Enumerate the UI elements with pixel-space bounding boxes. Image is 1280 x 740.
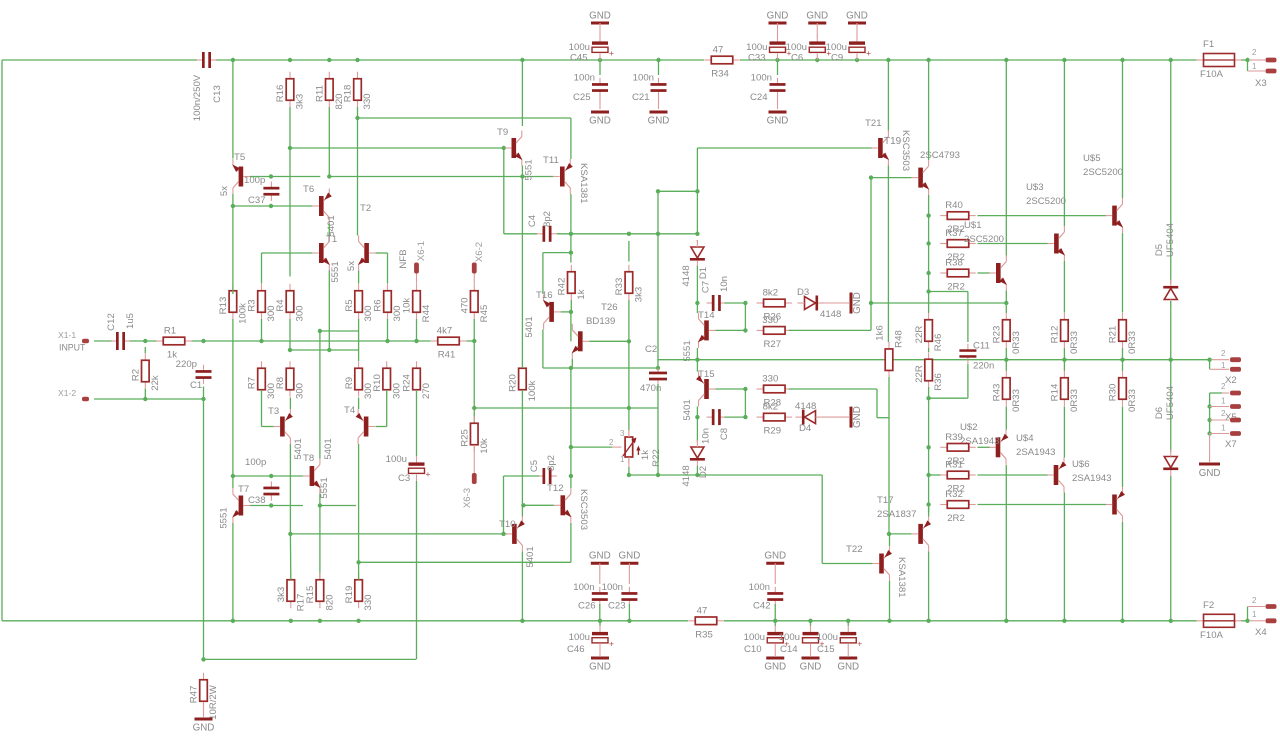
resistor R30 <box>1122 371 1124 378</box>
svg-text:220n: 220n <box>973 361 994 372</box>
capacitor C26 stack <box>591 562 609 565</box>
wire T10 emitter up <box>521 505 523 516</box>
node T1-emitter/y350 <box>327 348 331 352</box>
svg-text:1: 1 <box>1221 397 1226 406</box>
resistor R3 <box>261 284 263 291</box>
svg-text:X4: X4 <box>1255 627 1267 638</box>
svg-text:100n/250V: 100n/250V <box>192 74 203 121</box>
node C5/T10 base <box>501 532 505 536</box>
wire R5 bottom <box>358 319 360 331</box>
wire T3 collector <box>289 444 291 534</box>
svg-text:T21: T21 <box>865 118 882 129</box>
svg-text:U$5: U$5 <box>1083 153 1101 164</box>
wire T8 collector column <box>319 331 321 459</box>
wire U$4 collector <box>1063 493 1065 621</box>
svg-text:R32: R32 <box>945 489 963 500</box>
node rail C14 <box>808 619 812 623</box>
capacitor C11 220n <box>967 344 969 351</box>
diode D2 4148 <box>691 447 704 458</box>
connector X4 <box>1250 620 1265 622</box>
node R2 bottom <box>143 397 147 401</box>
svg-text:1k: 1k <box>640 450 651 460</box>
svg-text:10k: 10k <box>479 438 490 454</box>
svg-text:8k2: 8k2 <box>763 288 778 299</box>
svg-text:C10: C10 <box>744 644 762 655</box>
wire R4 bottom <box>289 319 291 350</box>
wire D6 bottom <box>1170 476 1172 621</box>
wire cascode line y118 <box>358 117 571 119</box>
wire R48 bottom <box>888 377 890 533</box>
node D1/C7/T14col <box>695 301 699 305</box>
svg-text:T11: T11 <box>543 155 559 166</box>
svg-text:R47: R47 <box>189 686 200 704</box>
svg-text:2SC4793: 2SC4793 <box>920 150 960 161</box>
svg-text:T15: T15 <box>698 369 715 380</box>
svg-text:GND: GND <box>648 116 670 127</box>
svg-text:2SC5200: 2SC5200 <box>1026 196 1066 207</box>
resistor R20 <box>521 361 523 368</box>
resistor R46 <box>928 313 930 320</box>
node C7/R26 <box>743 301 747 305</box>
svg-text:10n: 10n <box>701 428 712 444</box>
wire C38 top line <box>233 475 303 477</box>
svg-text:R14: R14 <box>1050 383 1061 401</box>
svg-text:GND: GND <box>846 11 868 22</box>
wire D2 bottom <box>696 466 698 475</box>
svg-text:2SC5200: 2SC5200 <box>964 234 1004 245</box>
wire T16 emitter path <box>543 252 571 254</box>
svg-text:2: 2 <box>1221 382 1226 391</box>
svg-text:300: 300 <box>295 305 306 321</box>
wire T4 emitter <box>358 398 360 410</box>
svg-text:+: + <box>426 469 431 479</box>
wire D5 bottom <box>1170 301 1172 360</box>
wire R28 right <box>789 388 877 390</box>
transistor T1 <box>319 243 324 263</box>
fuse F1 F10A <box>1197 59 1204 61</box>
wire R38 right to U$1 base <box>978 272 990 274</box>
resistor R41 <box>431 340 438 342</box>
transistor T16 <box>549 302 554 322</box>
svg-text:+: + <box>609 48 614 58</box>
svg-text:C7: C7 <box>701 281 712 293</box>
wire R37 right to U$3 base <box>978 243 1048 245</box>
svg-text:C1: C1 <box>190 380 202 391</box>
svg-text:330: 330 <box>762 374 778 385</box>
svg-text:F10A: F10A <box>1200 69 1224 80</box>
svg-text:D1: D1 <box>698 267 709 279</box>
svg-text:C42: C42 <box>753 601 771 612</box>
capacitor C7 10n <box>707 302 714 304</box>
ground D3 (rotated) <box>822 302 849 304</box>
pin X6-2 <box>472 263 477 274</box>
wire T5 collector down <box>232 194 234 206</box>
node C38 bottom <box>269 503 273 507</box>
svg-text:F2: F2 <box>1203 600 1214 611</box>
svg-text:1: 1 <box>1221 361 1226 370</box>
node R4/R8/y350 <box>288 348 292 352</box>
svg-text:1k6: 1k6 <box>875 325 886 340</box>
svg-text:X7: X7 <box>1225 439 1237 450</box>
transistor T15 <box>704 379 709 399</box>
svg-text:R12: R12 <box>1050 326 1061 344</box>
svg-text:C8: C8 <box>719 428 730 440</box>
svg-text:GND: GND <box>619 551 641 562</box>
svg-text:C5: C5 <box>529 460 540 472</box>
wire U$5 emitter <box>1122 233 1124 312</box>
svg-text:X6-1: X6-1 <box>416 241 427 261</box>
wire x571 column to C5 <box>570 368 572 476</box>
wire driver line y303 <box>871 302 1006 304</box>
svg-text:10R/2W: 10R/2W <box>208 684 219 720</box>
svg-text:UF5404: UF5404 <box>1165 222 1176 257</box>
svg-text:C2: C2 <box>645 344 657 355</box>
wire R27 right <box>789 329 871 331</box>
wire pot line y408 <box>474 407 658 409</box>
svg-text:T5: T5 <box>234 152 245 163</box>
svg-text:GND: GND <box>800 662 822 673</box>
node rail C42/C10 <box>773 619 777 623</box>
wire T19 base line <box>871 177 912 179</box>
ground C46 <box>599 651 601 657</box>
svg-text:R6: R6 <box>373 299 384 311</box>
wire U$2 emitter <box>1005 407 1007 430</box>
svg-text:5x: 5x <box>346 261 357 271</box>
transistor U$4 2SA1943 <box>1054 465 1059 485</box>
transistor T11 <box>560 167 565 187</box>
svg-text:GND: GND <box>1199 468 1221 479</box>
resistor R2 <box>144 353 146 360</box>
resistor R26 <box>757 302 764 304</box>
node R36 bottom <box>926 396 930 400</box>
wire R23 bottom <box>1005 348 1007 360</box>
node T26 emitter <box>569 366 573 370</box>
svg-text:GND: GND <box>589 551 611 562</box>
bottom supply rail (-V) wire <box>2 620 688 622</box>
svg-text:R7: R7 <box>247 377 258 389</box>
svg-text:D2: D2 <box>698 466 709 478</box>
svg-text:3k3: 3k3 <box>295 94 306 109</box>
capacitor C14 100u <box>810 621 812 626</box>
svg-text:T14: T14 <box>698 310 715 321</box>
transistor T2 <box>364 243 369 263</box>
node D1 anode <box>695 232 699 236</box>
wire T3 emitter <box>289 398 291 410</box>
svg-text:R8: R8 <box>275 377 286 389</box>
svg-text:1: 1 <box>620 455 625 464</box>
svg-text:C24: C24 <box>750 92 768 103</box>
wire U$3 emitter <box>1063 261 1065 313</box>
svg-text:10k: 10k <box>402 298 413 314</box>
node rail C23 <box>627 619 631 623</box>
node pot-line/R25 <box>472 406 476 410</box>
wire T17 collector <box>928 552 930 621</box>
transistor U$5 2SC5200 <box>1112 206 1117 226</box>
resistor R12 <box>1063 313 1065 320</box>
diode D6 UF5404 <box>1170 360 1172 452</box>
node R6/input <box>385 339 389 343</box>
svg-text:5551: 5551 <box>524 159 535 180</box>
wire T14 base <box>716 329 746 331</box>
svg-text:10n: 10n <box>719 276 730 292</box>
resistor R39 <box>940 446 947 448</box>
wire T11 emitter up <box>570 118 572 159</box>
transistor T26 <box>578 331 583 351</box>
resistor R27 <box>757 329 764 331</box>
svg-text:T10: T10 <box>499 519 516 530</box>
resistor R38 <box>940 272 947 274</box>
svg-text:T26: T26 <box>601 302 618 313</box>
pin X6-1 NFB <box>414 263 419 274</box>
svg-text:5551: 5551 <box>219 507 230 528</box>
node R18/T2-collector/T11-emitter <box>355 116 359 120</box>
svg-text:GND: GND <box>852 292 863 314</box>
svg-text:R39: R39 <box>945 432 963 443</box>
node C38 top <box>269 474 273 478</box>
svg-text:GND: GND <box>767 11 789 22</box>
wire C11 bottom path <box>967 364 969 399</box>
capacitor C23 stack <box>620 562 638 565</box>
wire T2 base jog <box>376 252 388 254</box>
node R23 rail <box>1004 358 1008 362</box>
svg-text:1: 1 <box>1221 424 1226 433</box>
svg-text:D6: D6 <box>1154 407 1165 419</box>
svg-text:R9: R9 <box>344 377 355 389</box>
capacitor C6 100u stack <box>808 22 826 25</box>
svg-text:100u: 100u <box>569 632 590 643</box>
resistor R25 <box>473 416 475 423</box>
svg-text:C15: C15 <box>817 644 835 655</box>
svg-text:U$3: U$3 <box>1026 182 1044 193</box>
node rail C26 <box>598 619 602 623</box>
wire R19 top <box>358 562 360 580</box>
capacitor C38 100p <box>270 481 272 488</box>
resistor R29 <box>757 416 764 418</box>
svg-text:0R33: 0R33 <box>1011 389 1022 412</box>
svg-text:4k7: 4k7 <box>437 326 452 337</box>
pin X6-3 <box>473 445 475 473</box>
wire R13 bottom column <box>232 319 234 476</box>
svg-text:R13: R13 <box>218 297 229 315</box>
svg-text:4148: 4148 <box>795 401 816 412</box>
svg-text:R44: R44 <box>421 304 432 322</box>
svg-text:0R33: 0R33 <box>1127 389 1138 412</box>
node driver line y303 <box>869 301 873 305</box>
wire T17 base <box>889 533 912 535</box>
wire R28 jog down <box>876 389 878 418</box>
wire T2 collector column <box>357 118 359 236</box>
capacitor C37 100p <box>270 182 272 189</box>
wire R7 bottom to T3 base <box>261 390 263 427</box>
node R11/T6-emitter <box>327 174 331 178</box>
transistor T6 <box>319 196 324 216</box>
svg-text:C45: C45 <box>570 53 588 64</box>
node R20/T9-emitter/y176 <box>520 174 524 178</box>
node R16/T9 base line <box>288 146 292 150</box>
resistor R47 <box>203 673 205 680</box>
svg-text:R10: R10 <box>372 374 383 392</box>
svg-text:1u5: 1u5 <box>125 313 136 329</box>
resistor R45 <box>473 284 475 291</box>
ground C25 <box>599 95 601 110</box>
wire R39 right <box>978 446 990 448</box>
svg-text:T8: T8 <box>303 453 314 464</box>
svg-text:R41: R41 <box>438 350 456 361</box>
svg-text:100n: 100n <box>602 582 623 593</box>
svg-text:GND: GND <box>764 662 786 673</box>
resistor R9 <box>358 361 360 368</box>
wire 358 link <box>358 331 360 350</box>
wire U$6 collector <box>1122 522 1124 621</box>
wire U$1 emitter <box>1005 291 1007 304</box>
svg-text:X1-2: X1-2 <box>58 388 76 398</box>
svg-text:T2: T2 <box>360 203 371 214</box>
svg-text:C21: C21 <box>632 92 650 103</box>
node R31 line <box>926 473 930 477</box>
svg-text:+: + <box>857 639 862 649</box>
resistor R11 <box>328 72 330 79</box>
node rail C15 <box>846 619 850 623</box>
capacitor C8 10n <box>707 416 714 418</box>
svg-text:T9: T9 <box>497 127 508 138</box>
svg-text:BD139: BD139 <box>586 316 615 327</box>
resistor R16 <box>289 72 291 79</box>
svg-text:2: 2 <box>1252 48 1257 57</box>
transistor T9 <box>512 138 517 158</box>
resistor R33 <box>628 265 630 272</box>
wire U$2 collector <box>1005 465 1007 621</box>
svg-text:100u: 100u <box>826 42 847 53</box>
resistor R37 <box>940 243 947 245</box>
wire T10 collector down <box>521 552 523 621</box>
node R42 top/T16em line <box>569 250 573 254</box>
wire T12 emitter down <box>570 523 572 562</box>
capacitor C3 100u <box>416 456 418 462</box>
svg-text:D5: D5 <box>1154 244 1165 256</box>
resistor R42 <box>570 265 572 272</box>
wire R24 bottom to C3 <box>416 390 418 456</box>
svg-text:100n: 100n <box>573 582 594 593</box>
node C1 bottom <box>201 397 205 401</box>
svg-text:1: 1 <box>1252 62 1257 71</box>
node R44/input <box>414 339 418 343</box>
svg-text:0R33: 0R33 <box>1069 331 1080 354</box>
svg-text:R1: R1 <box>164 326 176 337</box>
node R45/R41/R25 <box>472 339 476 343</box>
svg-text:T6: T6 <box>303 184 314 195</box>
pin X1-2 <box>82 397 89 402</box>
node D2/R31 line <box>695 473 699 477</box>
wire upper driver column <box>870 178 872 331</box>
wire T21 emitter / R48 column <box>887 166 889 343</box>
svg-text:R36: R36 <box>933 373 944 391</box>
output rail wire <box>658 359 1210 361</box>
svg-text:KSC3503: KSC3503 <box>900 130 911 171</box>
svg-text:100u: 100u <box>744 632 765 643</box>
capacitor C45 100u stack <box>591 22 609 25</box>
svg-text:5401: 5401 <box>524 316 535 337</box>
svg-text:220p: 220p <box>176 359 197 370</box>
svg-text:5551: 5551 <box>330 261 341 282</box>
svg-text:R22: R22 <box>651 449 662 467</box>
resistor R32 <box>940 504 947 506</box>
resistor R24 <box>416 361 418 368</box>
wire T5 base line y176 <box>250 176 320 178</box>
svg-text:C12: C12 <box>106 313 117 331</box>
wire U$4 emitter <box>1063 407 1065 458</box>
wire R23 top <box>1005 303 1007 313</box>
wire R13 top column <box>232 206 234 294</box>
node T17base/T22em <box>887 532 891 536</box>
svg-text:R42: R42 <box>557 278 568 296</box>
node R39 line <box>926 445 930 449</box>
node C8/R29 <box>743 415 747 419</box>
wire T21 base line <box>697 147 872 149</box>
svg-text:GND: GND <box>767 116 789 127</box>
wire R36 chain down <box>928 387 930 398</box>
wire T11 collector down <box>570 194 572 234</box>
wire U$3 collector <box>1063 60 1065 226</box>
capacitor C25 100n <box>599 60 601 75</box>
resistor R17 <box>290 573 292 580</box>
svg-text:C46: C46 <box>567 644 585 655</box>
wire C2 top column <box>657 191 659 368</box>
svg-text:R35: R35 <box>695 629 713 640</box>
wire T12 collector up <box>570 476 572 488</box>
wire R14 from rail <box>1063 360 1065 371</box>
svg-text:C11: C11 <box>973 341 990 352</box>
svg-text:330: 330 <box>362 93 373 109</box>
node T19 base <box>869 175 873 179</box>
svg-text:330: 330 <box>363 594 374 610</box>
svg-text:R38: R38 <box>945 258 963 269</box>
wire R18 bottom <box>357 107 359 118</box>
junction dots bottom rail right <box>887 619 891 623</box>
node T16 base <box>569 310 573 314</box>
wire R16 bottom <box>289 107 291 148</box>
wire R3 bottom <box>261 319 263 341</box>
svg-text:300: 300 <box>295 383 306 399</box>
svg-text:NFB: NFB <box>398 249 409 268</box>
wire R4 top column <box>289 148 291 277</box>
transistor T14 <box>704 320 709 340</box>
svg-text:T3: T3 <box>268 406 279 417</box>
svg-text:R11: R11 <box>315 85 326 102</box>
svg-text:U$6: U$6 <box>1072 459 1090 470</box>
wire R11 bottom <box>328 107 330 177</box>
capacitor C10 100u <box>774 621 776 626</box>
wire R2 top stub <box>144 347 146 353</box>
node y191 right <box>695 189 699 193</box>
node T8 emitter <box>318 503 322 507</box>
svg-text:C37: C37 <box>248 195 266 206</box>
wire X1-2 line <box>94 398 204 400</box>
svg-text:R33: R33 <box>614 278 625 296</box>
svg-text:100u: 100u <box>779 632 800 643</box>
wire R45 bottom <box>473 319 475 341</box>
capacitor C15 100u <box>847 621 849 626</box>
svg-text:100u: 100u <box>746 42 767 53</box>
node C37 top <box>269 174 273 178</box>
wire T15 emitter <box>696 360 698 372</box>
node wiper/x571 <box>569 445 573 449</box>
svg-text:T7: T7 <box>238 484 249 495</box>
wire T26 emitter link <box>571 359 573 367</box>
node T5-col/R13/C37 line <box>231 204 235 208</box>
wire R40 right to U$5 base <box>978 215 1107 217</box>
wire R10 bottom to T4 base <box>386 390 388 427</box>
svg-text:R19: R19 <box>344 586 355 604</box>
